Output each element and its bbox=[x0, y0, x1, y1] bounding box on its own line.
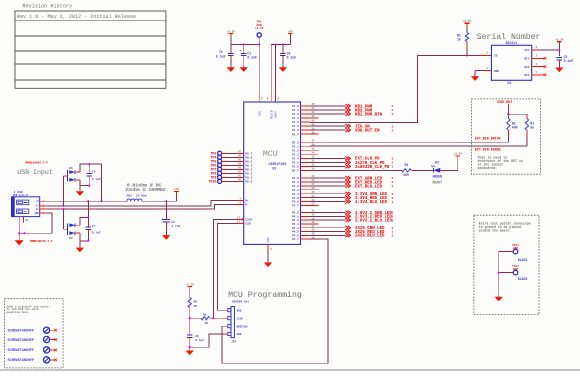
svg-text:P3.3: P3.3 bbox=[292, 189, 299, 192]
svg-text:40: 40 bbox=[238, 179, 242, 182]
wire D2 lower rail to ground bbox=[79, 233, 81, 248]
wire header GND to ground rail bbox=[224, 333, 228, 335]
svg-text:C7: C7 bbox=[92, 225, 96, 228]
svg-text:22: 22 bbox=[312, 203, 316, 206]
wire FB1 to +5V bbox=[145, 200, 177, 202]
svg-text:SCREWSTANDOFF: SCREWSTANDOFF bbox=[8, 339, 34, 343]
USB connector J1 body bbox=[12, 197, 40, 217]
ground in test point box bbox=[495, 297, 503, 302]
svg-text:36: 36 bbox=[312, 143, 316, 146]
resistor R1 1k bbox=[465, 33, 468, 42]
svg-text:NC2: NC2 bbox=[524, 66, 529, 69]
svg-text:34: 34 bbox=[312, 151, 316, 154]
svg-text:2X26_BLU_LED: 2X26_BLU_LED bbox=[355, 235, 385, 239]
MCU top pin REGIN bbox=[270, 90, 272, 102]
wire EXT_DIR_DRIVE bbox=[310, 141, 508, 143]
capacitor C3 0.1uF bbox=[558, 50, 560, 56]
wire EXT_DIR_SENSE bbox=[310, 145, 527, 147]
svg-text:45: 45 bbox=[238, 159, 242, 162]
wire / net flag 3.3V4_BLU_LED bbox=[310, 201, 345, 203]
svg-text:BLACK: BLACK bbox=[518, 258, 528, 262]
sheet bottom border bbox=[0, 369, 580, 371]
dashed annotation box ground test points bbox=[474, 215, 539, 314]
MCU pin C2CK bbox=[238, 218, 241, 220]
svg-text:REGIN: REGIN bbox=[270, 110, 273, 119]
svg-text:22ohm @ 100MHZ: 22ohm @ 100MHZ bbox=[125, 187, 165, 193]
svg-text:VDD: VDD bbox=[258, 111, 261, 116]
wire / net flag KB2_PWM bbox=[310, 109, 345, 111]
dashed annotation box screws bbox=[5, 299, 64, 368]
svg-text:FB1: FB1 bbox=[127, 195, 133, 198]
wire VBUS to MCU bbox=[275, 45, 277, 91]
wire VDD to MCU bbox=[258, 45, 260, 91]
svg-text:+5V: +5V bbox=[288, 30, 293, 33]
capacitor C7 0.1uF bbox=[87, 217, 89, 222]
svg-text:1K: 1K bbox=[205, 322, 209, 325]
dashed annotation box VDD_OUT divider bbox=[471, 99, 540, 174]
svg-text:VDD_OUT: VDD_OUT bbox=[497, 101, 513, 105]
svg-text:43: 43 bbox=[238, 167, 242, 170]
svg-text:P2.0: P2.0 bbox=[292, 141, 299, 144]
capacitor C8 0.1uF bbox=[187, 334, 193, 336]
USB pin stubs bbox=[40, 200, 47, 202]
svg-text:46: 46 bbox=[238, 155, 242, 158]
svg-text:P1.0: P1.0 bbox=[292, 105, 299, 108]
svg-text:P0.2: P0.2 bbox=[245, 172, 252, 175]
junction D2/C7 rail on VBUS bbox=[87, 200, 89, 202]
wire +5V rail bbox=[271, 44, 290, 46]
junction R1 / IO net bbox=[466, 54, 468, 56]
svg-text:BLACK: BLACK bbox=[518, 277, 528, 281]
ferrite bead FB1 22 Ohm bbox=[124, 200, 127, 202]
wire test points to ground bbox=[499, 252, 511, 297]
wire REGIN to MCU bbox=[270, 45, 272, 91]
svg-text:VBUS: VBUS bbox=[275, 111, 278, 118]
svg-text:0.1uF: 0.1uF bbox=[216, 55, 226, 59]
svg-text:around the board.: around the board. bbox=[479, 228, 512, 232]
ground below C1 bbox=[240, 67, 248, 72]
wire R4 to D3 bbox=[416, 169, 434, 171]
svg-text:MCU Programming: MCU Programming bbox=[228, 290, 302, 300]
junction D2 anode on D+ bbox=[62, 208, 64, 210]
ground below C8 bbox=[186, 351, 194, 356]
IC U1 DS2411 bbox=[491, 45, 531, 80]
wire / net flag 2.6V3.2_BLU_LED bbox=[310, 219, 345, 221]
svg-text:+: + bbox=[239, 50, 241, 54]
svg-text:P1.2: P1.2 bbox=[292, 113, 299, 116]
junction C4 top bbox=[282, 43, 284, 45]
svg-text:D+: D+ bbox=[245, 199, 249, 202]
svg-text:P3.7: P3.7 bbox=[292, 205, 299, 208]
svg-text:READY: READY bbox=[433, 180, 443, 184]
wire header BOOTLOW loop to MCU P4.7 bbox=[224, 325, 228, 327]
svg-text:C2: C2 bbox=[219, 50, 223, 54]
svg-text:400: 400 bbox=[403, 173, 409, 177]
wire D+ to MCU bbox=[47, 204, 239, 209]
wire VBUS bbox=[47, 200, 125, 202]
svg-text:D1: D1 bbox=[69, 167, 73, 170]
svg-text:C6: C6 bbox=[171, 221, 175, 224]
ground below C2 bbox=[227, 67, 235, 72]
junction TP12 wire bbox=[498, 272, 500, 274]
junction D1 anode on D- bbox=[62, 205, 64, 207]
junction TP1/VDD bbox=[258, 43, 260, 45]
svg-text:R3: R3 bbox=[530, 121, 534, 125]
svg-text:26: 26 bbox=[312, 187, 316, 190]
junction C5 top bbox=[88, 163, 90, 165]
svg-text:P3.6: P3.6 bbox=[292, 201, 299, 204]
ground below MCU bbox=[264, 263, 272, 268]
svg-text:37: 37 bbox=[312, 139, 316, 142]
MCU bottom pin GND bbox=[267, 244, 269, 250]
svg-text:USB Input: USB Input bbox=[17, 169, 53, 176]
svg-text:P0.6: P0.6 bbox=[245, 156, 252, 159]
resistor R6 1K bbox=[188, 298, 191, 308]
svg-text:D2: D2 bbox=[69, 237, 73, 240]
svg-text:38: 38 bbox=[312, 131, 316, 134]
svg-text:+3.3V: +3.3V bbox=[185, 283, 194, 286]
svg-text:P1.1: P1.1 bbox=[292, 109, 299, 112]
resistor R2 400 bbox=[507, 114, 509, 118]
wire D- to MCU bbox=[47, 200, 239, 206]
svg-text:0.1uF: 0.1uF bbox=[247, 56, 257, 60]
svg-text:3.3V4_BLU_LED: 3.3V4_BLU_LED bbox=[355, 201, 387, 205]
junction C7 bottom bbox=[87, 240, 89, 242]
junction VCC / C3 bbox=[558, 49, 560, 51]
svg-text:mounting hole: mounting hole bbox=[7, 310, 29, 314]
svg-text:400: 400 bbox=[512, 126, 518, 130]
svg-text:MMBD3004S-7-F: MMBD3004S-7-F bbox=[25, 162, 48, 165]
svg-text:SCREWSTANDOFF: SCREWSTANDOFF bbox=[8, 349, 34, 353]
svg-text:0.1uF: 0.1uF bbox=[287, 56, 297, 60]
svg-text:P2.2: P2.2 bbox=[292, 149, 299, 152]
svg-text:P3.2: P3.2 bbox=[292, 185, 299, 188]
svg-text:U1: U1 bbox=[508, 81, 512, 85]
resistor R4 400 bbox=[398, 169, 402, 171]
wire D1 cathode rail bbox=[80, 164, 102, 172]
resistor R3 5k bbox=[526, 114, 528, 118]
svg-text:SCREWSTANDOFF: SCREWSTANDOFF bbox=[8, 330, 34, 334]
svg-text:4.7uF: 4.7uF bbox=[171, 225, 180, 228]
junction C7 top bbox=[87, 216, 89, 218]
junction C5 bottom bbox=[88, 185, 90, 187]
wire / net flag 2X26_BLU_LED bbox=[310, 234, 345, 236]
wire / net flag 3.3V4_RED_LED bbox=[310, 197, 345, 199]
wire D2 anode to D+ line bbox=[63, 209, 65, 229]
junction C1 top bbox=[243, 43, 245, 45]
svg-text:Rev 1.0 - May 2, 2012 - Initi: Rev 1.0 - May 2, 2012 - Initial Release bbox=[17, 14, 136, 20]
wire D1 rail to VBUS bbox=[101, 164, 103, 201]
svg-text:EXT_DIR_DRIVE: EXT_DIR_DRIVE bbox=[475, 137, 501, 141]
svg-text:P0.5: P0.5 bbox=[245, 160, 252, 163]
svg-text:0.1uF: 0.1uF bbox=[564, 59, 574, 63]
svg-text:EXT_BLU_LED: EXT_BLU_LED bbox=[355, 185, 383, 189]
ground below C6 bbox=[162, 235, 170, 240]
capacitor C4 0.1uF bbox=[282, 45, 284, 52]
wire / net flag EXT_GRN_LED bbox=[310, 177, 345, 179]
capacitor C1 0.1uF bbox=[243, 45, 245, 52]
svg-text:P0.0: P0.0 bbox=[245, 180, 252, 183]
svg-text:+3.3V: +3.3V bbox=[463, 20, 472, 23]
svg-text:NC3: NC3 bbox=[524, 74, 529, 77]
svg-text:47: 47 bbox=[238, 151, 242, 154]
svg-text:0.1uF: 0.1uF bbox=[92, 178, 101, 181]
MCU right pins P2.0-P2.7 bbox=[301, 141, 311, 143]
wire / net flag KB1_PWM_RTN bbox=[310, 113, 345, 115]
junction shield/gnd bbox=[18, 232, 20, 234]
MCU right pins P1.0-P1.7 bbox=[301, 105, 311, 107]
wire USB GND to ground bbox=[19, 213, 52, 233]
wire / net flag 2.6V3.2_RED_LED bbox=[310, 215, 345, 217]
USB shield pins bbox=[18, 217, 20, 223]
svg-text:+5V: +5V bbox=[174, 188, 179, 191]
svg-text:1k: 1k bbox=[457, 38, 461, 42]
MCU right pins P4.0-P4.7 bbox=[301, 212, 311, 214]
svg-text:+3.3V: +3.3V bbox=[227, 30, 236, 33]
svg-text:VCC: VCC bbox=[524, 49, 529, 52]
capacitor C5 0.1uF bbox=[88, 164, 90, 169]
svg-text:D3: D3 bbox=[435, 160, 439, 164]
ground below D2 bbox=[76, 248, 84, 253]
svg-text:P2.6: P2.6 bbox=[292, 165, 299, 168]
svg-text:41: 41 bbox=[238, 175, 242, 178]
svg-text:R6: R6 bbox=[194, 301, 198, 304]
svg-text:P0.4: P0.4 bbox=[245, 164, 252, 167]
capacitor C6 4.7uF bbox=[165, 201, 167, 216]
svg-text:2.6V3.2_BLU_LED: 2.6V3.2_BLU_LED bbox=[355, 220, 392, 224]
svg-text:P3.1: P3.1 bbox=[292, 181, 299, 184]
MCU pin D+ bbox=[238, 199, 244, 201]
junction rail VBUS pin bbox=[275, 43, 277, 45]
svg-text:C2CK: C2CK bbox=[237, 317, 244, 320]
svg-text:USB-Type-B: USB-Type-B bbox=[13, 194, 29, 197]
svg-text:D-: D- bbox=[245, 203, 249, 206]
svg-text:22 Ohm: 22 Ohm bbox=[136, 194, 147, 198]
MCU U2 C8051F380 body bbox=[244, 102, 301, 244]
svg-text:P4.2: P4.2 bbox=[292, 219, 299, 222]
svg-text:C8: C8 bbox=[195, 335, 199, 338]
junction D1 cathode rail on VBUS bbox=[100, 200, 102, 202]
svg-text:GND: GND bbox=[35, 212, 40, 215]
svg-text:P4.6: P4.6 bbox=[292, 234, 299, 237]
svg-text:VDD_DUT_EN: VDD_DUT_EN bbox=[355, 130, 380, 134]
ground below D1 bbox=[76, 191, 84, 196]
svg-text:EXT_DIR_SENSE: EXT_DIR_SENSE bbox=[475, 148, 501, 152]
svg-text:P0.3: P0.3 bbox=[245, 168, 252, 171]
svg-text:C2D: C2D bbox=[245, 223, 250, 226]
wire C2D from MCU to header VDD bbox=[217, 223, 238, 310]
ground below C3 bbox=[555, 68, 563, 73]
svg-text:KB1_PWM_RTN: KB1_PWM_RTN bbox=[355, 113, 383, 117]
no-connect pins NC1-NC3 bbox=[532, 57, 544, 59]
wire R6 to C8 bbox=[189, 318, 191, 331]
svg-text:42: 42 bbox=[238, 171, 242, 174]
svg-text:P1.3: P1.3 bbox=[292, 117, 299, 120]
svg-text:+3.3V: +3.3V bbox=[453, 153, 462, 156]
svg-text:18: 18 bbox=[312, 221, 316, 224]
svg-text:HEADER 4X1: HEADER 4X1 bbox=[232, 301, 249, 304]
svg-text:R5: R5 bbox=[203, 313, 207, 316]
wire / net flag EXT_CLK_PD bbox=[310, 157, 345, 159]
MCU top pin VDD bbox=[258, 90, 260, 102]
svg-text:MMBD3004S-7-F: MMBD3004S-7-F bbox=[30, 240, 53, 243]
svg-text:41: 41 bbox=[312, 119, 316, 122]
wire / net flag 3.3V4_GRN_LED bbox=[310, 193, 345, 195]
junction C6 bbox=[165, 200, 167, 202]
svg-text:P4.1: P4.1 bbox=[292, 215, 299, 218]
wire / net flag EXT_RED_LED bbox=[310, 181, 345, 183]
wire / net flag 3x27R_CLK_PD bbox=[310, 161, 345, 163]
MCU right pins P3.0-P3.7 bbox=[301, 177, 311, 179]
svg-text:P2.5: P2.5 bbox=[292, 161, 299, 164]
svg-text:P4.0: P4.0 bbox=[292, 212, 299, 215]
svg-text:BOOTLOW: BOOTLOW bbox=[237, 325, 248, 328]
svg-text:R2: R2 bbox=[512, 121, 516, 125]
wire D1 lower rail to ground bbox=[79, 180, 81, 191]
svg-text:P1.5: P1.5 bbox=[292, 125, 299, 128]
svg-text:P2.3: P2.3 bbox=[292, 153, 299, 156]
svg-text:P1.4: P1.4 bbox=[292, 121, 299, 124]
pin 1 GND of U1 bbox=[483, 70, 491, 72]
svg-text:C8051F380: C8051F380 bbox=[269, 162, 287, 166]
svg-text:Revision History: Revision History bbox=[22, 4, 72, 10]
wire / net flag EXT_BLU_LED bbox=[310, 185, 345, 187]
svg-text:0.1uF: 0.1uF bbox=[92, 232, 101, 235]
ground below C4 bbox=[279, 67, 287, 72]
wire / net flag VDD_DUT_EN bbox=[310, 129, 345, 131]
revision history table bbox=[15, 11, 166, 88]
wire D2 cathode rail to VBUS bbox=[80, 217, 88, 225]
svg-text:P2.1: P2.1 bbox=[292, 145, 299, 148]
svg-text:0.1uF: 0.1uF bbox=[195, 339, 204, 342]
svg-text:GND: GND bbox=[267, 237, 270, 242]
wire D1 anode to D- line bbox=[63, 176, 65, 206]
wire VDD_OUT rail bbox=[508, 113, 527, 115]
svg-text:1K: 1K bbox=[194, 305, 198, 308]
ground below USB bbox=[15, 240, 24, 245]
svg-text:NC1: NC1 bbox=[524, 58, 529, 61]
svg-text:P2.4: P2.4 bbox=[292, 157, 299, 160]
svg-text:P1.7: P1.7 bbox=[292, 133, 299, 136]
svg-text:42: 42 bbox=[312, 115, 316, 118]
svg-text:TP10: TP10 bbox=[208, 180, 216, 184]
svg-text:C5: C5 bbox=[92, 170, 96, 173]
svg-text:GND: GND bbox=[494, 70, 499, 73]
junction R6 / R5 bbox=[189, 317, 191, 319]
svg-text:GREEN: GREEN bbox=[433, 174, 443, 178]
resistor R5 1K bbox=[190, 317, 201, 319]
svg-text:P2.7: P2.7 bbox=[292, 170, 299, 173]
capacitor C2 0.1uF bbox=[230, 45, 232, 52]
wire D3 to +3.3V bbox=[445, 160, 458, 170]
svg-text:IO: IO bbox=[494, 55, 498, 58]
wire / net flag JIG_SN bbox=[310, 125, 345, 127]
svg-text:+3.3V: +3.3V bbox=[555, 38, 564, 41]
svg-text:35: 35 bbox=[312, 147, 316, 150]
svg-text:C2CK: C2CK bbox=[245, 219, 252, 222]
ground below U1 bbox=[471, 76, 479, 81]
svg-text:5k: 5k bbox=[530, 126, 534, 130]
junction ground rail bbox=[189, 346, 191, 348]
svg-text:SCREWSTANDOFF: SCREWSTANDOFF bbox=[8, 359, 34, 363]
MCU pin D- bbox=[238, 203, 244, 205]
svg-text:backwards.: backwards. bbox=[478, 166, 498, 170]
svg-text:P0.7: P0.7 bbox=[245, 152, 252, 155]
wire / net flag KB1_PWM bbox=[310, 105, 345, 107]
wire +3.3V rail bbox=[231, 44, 259, 46]
svg-text:JP1: JP1 bbox=[231, 340, 236, 343]
svg-text:2x8032R_CLK_PD: 2x8032R_CLK_PD bbox=[355, 166, 390, 170]
wire JIG_SN to DS2411 IO bbox=[310, 55, 479, 122]
junction C2CK / R5 / header bbox=[212, 317, 214, 319]
svg-text:P4.3: P4.3 bbox=[292, 223, 299, 226]
wire P2.7 to R4 bbox=[310, 169, 398, 171]
junction VDD_OUT rail bbox=[507, 113, 509, 115]
svg-text:DS2411: DS2411 bbox=[506, 41, 518, 45]
svg-text:P3.5: P3.5 bbox=[292, 197, 299, 200]
svg-text:+3.3V: +3.3V bbox=[255, 27, 264, 30]
svg-text:P0.1: P0.1 bbox=[245, 176, 252, 179]
svg-text:P1.6: P1.6 bbox=[292, 129, 299, 132]
MCU top pin VBUS bbox=[275, 90, 277, 102]
LED D3 GREEN READY bbox=[432, 168, 434, 172]
svg-text:U2: U2 bbox=[272, 167, 276, 171]
svg-text:P4.7: P4.7 bbox=[292, 238, 299, 241]
wire / net flag 2X26_RED_LED bbox=[310, 231, 345, 233]
svg-text:MCU: MCU bbox=[263, 150, 278, 159]
svg-text:44: 44 bbox=[238, 163, 242, 166]
svg-text:P3.0: P3.0 bbox=[292, 177, 299, 180]
svg-text:P4.5: P4.5 bbox=[292, 231, 299, 234]
svg-text:R4: R4 bbox=[404, 163, 408, 167]
wire / net flag 2X26_GRN_LED bbox=[310, 227, 345, 229]
svg-text:P4.4: P4.4 bbox=[292, 227, 299, 230]
svg-text:VDD: VDD bbox=[237, 309, 242, 312]
pin 6 VCC of U1 bbox=[532, 49, 538, 51]
wire / net flag 2x8032R_CLK_PD bbox=[310, 165, 345, 167]
wire C2CK from MCU bbox=[213, 219, 238, 318]
wire / net flag 2.6V3.2_GRN_LED bbox=[310, 212, 345, 214]
svg-text:GND: GND bbox=[237, 333, 242, 336]
MCU pin C2D bbox=[238, 222, 244, 224]
svg-text:P3.4: P3.4 bbox=[292, 193, 299, 196]
